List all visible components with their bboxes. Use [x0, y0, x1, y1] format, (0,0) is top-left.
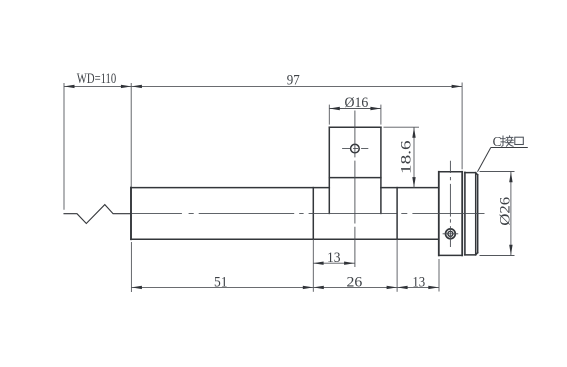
label glyph kou (of C接口) [515, 137, 524, 144]
18.6 dimension line [413, 127, 415, 187]
arrow 18.6 bottom [412, 177, 415, 188]
arrow 51 right [303, 286, 314, 289]
extension line below disc left face [438, 259, 440, 292]
bottom dimension line 51-26-13 [131, 286, 438, 288]
arrow 18.6 top [412, 127, 415, 138]
disc screw horizontal crosshair [443, 233, 459, 235]
WD dimension left extension line [63, 83, 65, 210]
dia16 dimension line [329, 108, 381, 110]
svg-text:51: 51 [214, 274, 228, 291]
upper 13 dimension line [313, 262, 355, 264]
disc screw vertical centerline [449, 161, 451, 247]
arrow 13 left [397, 286, 408, 289]
c-mount ring thread line [475, 173, 477, 255]
tube top edge left segment [131, 187, 329, 189]
port block left edge [328, 127, 330, 213]
c-mount ring bottom edge [465, 253, 478, 255]
18.6 top extension line [384, 126, 420, 128]
97 dimension right extension line [461, 83, 463, 170]
svg-text:WD=110: WD=110 [77, 70, 117, 87]
arrow dia16 right [370, 107, 381, 110]
tube top edge right segment [381, 187, 439, 189]
svg-text:26: 26 [347, 273, 363, 290]
dia16 right extension line [380, 105, 382, 125]
port hole horizontal crosshair [342, 148, 368, 150]
arrow 97 right [452, 85, 463, 88]
undercut groove line [464, 172, 466, 254]
svg-text:13: 13 [412, 273, 425, 290]
arrow dia16 left [329, 107, 340, 110]
c-mount ring top edge [465, 173, 478, 175]
dia26 dimension line [510, 172, 512, 255]
C-mount label underline [491, 147, 528, 149]
svg-text:13: 13 [327, 249, 341, 266]
svg-text:Ø26: Ø26 [496, 196, 513, 225]
disc screw hole inner [448, 231, 453, 236]
main horizontal centerline [132, 212, 485, 214]
extension line below tube left face [130, 242, 132, 292]
port block vertical centerline [354, 111, 356, 268]
arrow upper13 right [344, 262, 355, 265]
arrow dia26 bottom [509, 245, 512, 256]
arrow WD left [64, 85, 75, 88]
arrow 13 right [428, 286, 439, 289]
svg-text:97: 97 [287, 72, 300, 89]
tube joint line left (x=313) [312, 188, 314, 240]
tube joint line right (x=397) [396, 188, 398, 240]
dia26 top extension line [480, 171, 515, 173]
disc screw hole outer [446, 229, 456, 239]
arrow 51 left [131, 286, 142, 289]
arrow 97 left [131, 85, 142, 88]
tube bottom edge [131, 238, 439, 240]
arrow WD right [121, 85, 131, 88]
port block top edge [329, 126, 381, 128]
svg-text:Ø16: Ø16 [345, 94, 369, 111]
port block right edge [380, 127, 382, 213]
dia16 left extension line [328, 105, 330, 125]
dia26 bottom extension line [480, 255, 515, 257]
break zigzag at tube left [64, 205, 131, 224]
shared extension line at tube left face [130, 83, 132, 187]
97 dimension line [131, 85, 462, 87]
arrow dia26 top [509, 172, 512, 183]
disc bottom edge [439, 254, 462, 256]
svg-text:18.6: 18.6 [397, 140, 414, 174]
svg-text:C: C [493, 134, 502, 149]
disc left face [438, 172, 440, 256]
arrow 26 right [387, 286, 398, 289]
WD=110 dimension line [64, 85, 131, 87]
C-mount label leader line [478, 148, 491, 172]
arrow 26 left [313, 286, 324, 289]
label glyph jie (of C接口) [501, 136, 514, 147]
tube left end face [130, 188, 132, 240]
disc right face [461, 172, 463, 256]
port block collar line [329, 177, 381, 179]
port screw hole [351, 144, 360, 153]
c-mount ring right face [477, 175, 479, 253]
extension line below joint x=397 [396, 239, 398, 292]
arrow upper13 left [313, 262, 324, 265]
disc top edge [439, 171, 462, 173]
extension line below joint x=313 [312, 239, 314, 292]
